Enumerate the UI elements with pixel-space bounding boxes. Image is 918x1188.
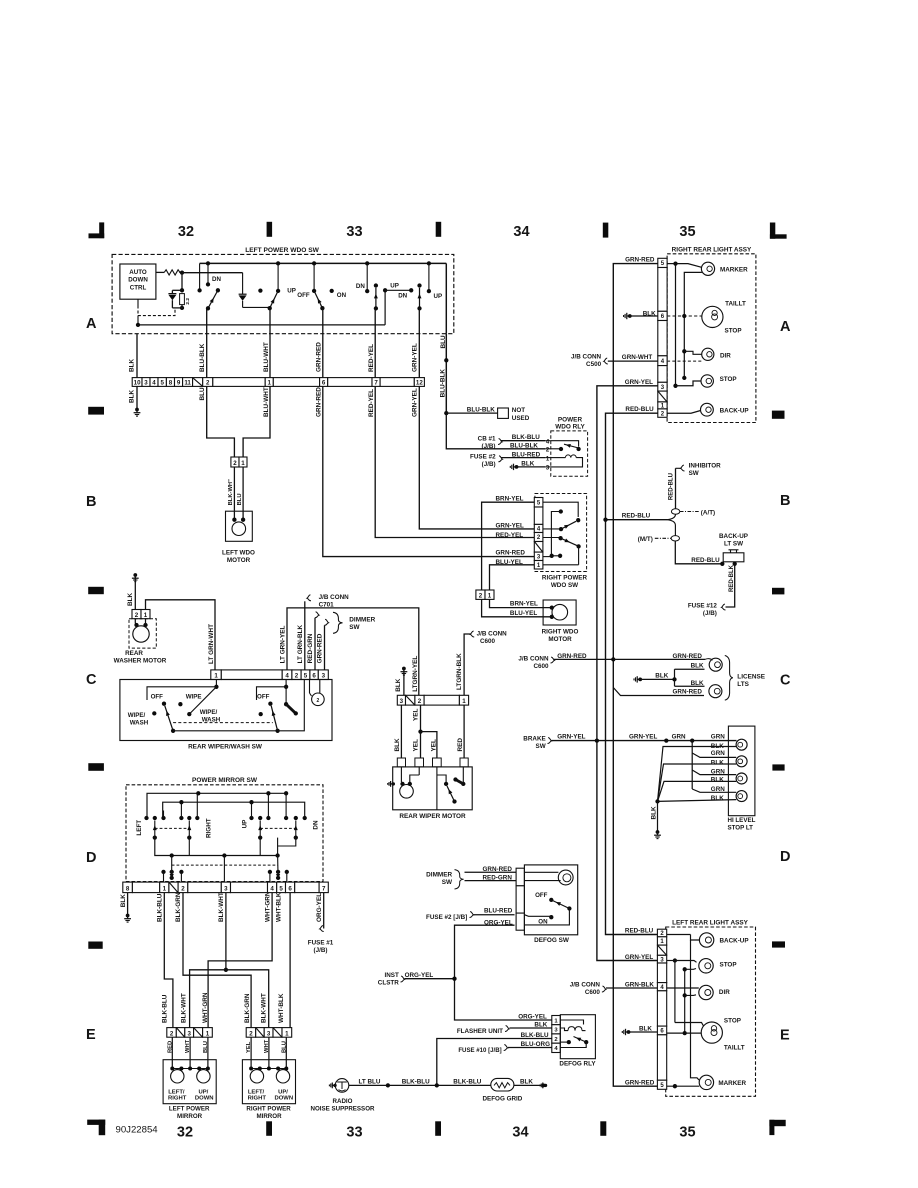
- wire ORG-YEL fuse2 to defog sw and down to defog rly: [455, 925, 552, 1020]
- svg-text:1: 1: [144, 612, 148, 619]
- svg-text:DIR: DIR: [720, 353, 731, 360]
- svg-text:C500: C500: [586, 361, 602, 368]
- svg-text:32: 32: [177, 1125, 193, 1141]
- ground G9 with BLK to pin6: [627, 1030, 631, 1034]
- svg-text:2: 2: [135, 612, 139, 619]
- license BLK common with ground: [638, 678, 642, 682]
- svg-text:SW: SW: [689, 470, 699, 477]
- svg-text:MARKER: MARKER: [718, 1080, 746, 1087]
- wire LT BLU / BLK-BLU to defog grid: [349, 1084, 491, 1086]
- svg-text:GRN-RED: GRN-RED: [316, 633, 323, 663]
- svg-text:2: 2: [233, 460, 237, 467]
- wire BLK flasher to defog rly: [510, 1027, 552, 1029]
- hi level BLK to ground: [657, 801, 659, 831]
- wire auto-down ctrl to resistor: [156, 271, 164, 273]
- svg-text:3: 3: [187, 1030, 191, 1037]
- svg-text:USED: USED: [512, 415, 530, 422]
- svg-text:DN: DN: [313, 820, 320, 830]
- svg-text:GRN-RED: GRN-RED: [496, 550, 526, 557]
- wire BLU-YEL to right wdo motor: [482, 599, 552, 616]
- switch BACK-UP LT SW symbol: [723, 553, 744, 562]
- connector strip power mirror sw: [123, 882, 133, 893]
- hi level bulbs x4: [736, 739, 747, 750]
- svg-text:35: 35: [679, 224, 695, 240]
- defog grid element: [491, 1078, 514, 1091]
- svg-text:UP/: UP/: [198, 1089, 208, 1095]
- svg-text:GRN-YEL: GRN-YEL: [629, 734, 657, 741]
- svg-text:DEFOG RLY: DEFOG RLY: [559, 1061, 596, 1068]
- wire BLK from defog grid to ground: [514, 1084, 541, 1086]
- connector half (A/T): [671, 509, 679, 514]
- svg-text:RED: RED: [457, 738, 464, 752]
- wire GRN-RED dimmer to wiper sw pin3: [324, 625, 326, 670]
- wire BLK-GRN pin2 to right mirror pin2: [183, 893, 251, 1028]
- svg-text:GRN: GRN: [672, 734, 686, 741]
- diode D1 with 2.2 resistor branch: [172, 289, 182, 291]
- connector C2 2-1 to right wdo motor: [476, 590, 485, 599]
- wire GRN-WHT to pin4: [608, 360, 658, 362]
- svg-text:4: 4: [285, 673, 289, 680]
- svg-text:RED-GRN: RED-GRN: [307, 633, 314, 663]
- svg-text:BLU-BLK: BLU-BLK: [199, 343, 206, 372]
- svg-text:BLK-WHT: BLK-WHT: [261, 993, 268, 1023]
- svg-text:WASHER MOTOR: WASHER MOTOR: [114, 658, 167, 665]
- node diode bottom: [180, 306, 184, 310]
- wire M/T to back-up lt sw: [675, 541, 722, 564]
- svg-text:BLK-WHT: BLK-WHT: [181, 993, 188, 1023]
- node BLU / BLU-BLK transition: [444, 358, 448, 362]
- svg-text:J/B CONN: J/B CONN: [570, 982, 601, 989]
- svg-text:BLK-BLU: BLK-BLU: [521, 1032, 549, 1039]
- rear wiper motor ground lead: [392, 782, 395, 785]
- svg-text:WHT: WHT: [264, 1039, 270, 1053]
- wire GRN-RED pin6: [322, 334, 324, 378]
- label J/B CONN C701: [307, 595, 311, 601]
- svg-text:BLK: BLK: [129, 358, 136, 372]
- svg-text:BLK-BLU: BLK-BLU: [512, 434, 540, 441]
- wire BLU-YEL pin1 to 2-1 connector: [490, 565, 535, 590]
- wire RED-BLU up to inhibitor sw: [675, 468, 677, 509]
- svg-text:RED-BLU: RED-BLU: [669, 473, 675, 500]
- svg-text:8: 8: [169, 380, 173, 387]
- mirror sw dashed couplers: [155, 827, 190, 829]
- svg-text:6: 6: [322, 380, 326, 387]
- wire BLK-BLU pin1 to left mirror pin2: [164, 893, 173, 1028]
- svg-text:BLK: BLK: [711, 777, 724, 784]
- svg-text:BLK: BLK: [691, 680, 704, 687]
- wire BLK-BLU to relay pin4: [501, 440, 546, 442]
- svg-text:3: 3: [267, 1030, 271, 1037]
- wire ORG-YEL inst clstr to junction: [405, 978, 455, 980]
- box REAR WIPER MOTOR: [393, 767, 473, 810]
- motor circle rear wiper: [400, 782, 404, 786]
- wire WHT-GRN pin4 to left mirror pin1: [208, 893, 272, 1028]
- svg-text:RED-YEL: RED-YEL: [368, 344, 375, 372]
- svg-text:UP: UP: [390, 283, 399, 290]
- svg-text:GRN-RED: GRN-RED: [673, 689, 703, 696]
- wire taillt dashed link to bulb: [667, 315, 702, 317]
- svg-text:UP: UP: [241, 820, 248, 829]
- svg-text:LEFT/: LEFT/: [168, 1089, 185, 1095]
- svg-text:BLU-BLK: BLU-BLK: [467, 407, 495, 414]
- wire BLK below pin10 to ground: [136, 386, 138, 408]
- box RIGHT POWER MIRROR: [242, 1060, 295, 1104]
- bulb STOP left rear upper: [673, 958, 677, 962]
- svg-text:2: 2: [295, 673, 299, 680]
- svg-text:BLU-RED: BLU-RED: [484, 907, 513, 914]
- wire BLU-RED to relay pin1: [501, 457, 545, 459]
- page frame: right margin ticks: [772, 411, 785, 419]
- rear wiper sw internals: pin1 node: [215, 680, 217, 687]
- svg-text:BLK-BLU: BLK-BLU: [453, 1079, 481, 1086]
- wire GRN-RED from C600 to bus: [554, 658, 614, 660]
- svg-text:3: 3: [400, 698, 404, 705]
- svg-text:OFF: OFF: [297, 292, 310, 299]
- page frame: ruler corner mark top-right: [770, 223, 775, 239]
- svg-text:FUSE #2: FUSE #2: [470, 453, 496, 460]
- svg-text:WHT-GRN: WHT-GRN: [202, 992, 209, 1023]
- svg-text:NOT: NOT: [512, 407, 525, 414]
- svg-text:ORG-YEL: ORG-YEL: [518, 1013, 547, 1020]
- bulb DIR right rear: [682, 349, 686, 353]
- svg-text:WDO SW: WDO SW: [551, 582, 578, 589]
- connector NOT USED: [498, 408, 509, 418]
- wire RED-BLU bus from pin2 down page: [606, 413, 658, 934]
- page frame: top ruler ticks: [267, 222, 273, 237]
- box HI LEVEL STOP LT: [728, 726, 755, 816]
- internal vertical from stop node: [674, 961, 676, 1023]
- svg-text:E: E: [780, 1028, 790, 1044]
- connector strip defog rly: [552, 1016, 561, 1025]
- svg-text:RED-YEL: RED-YEL: [496, 532, 524, 539]
- wire BLU-BLK pin2: [206, 334, 208, 378]
- svg-text:2: 2: [249, 1030, 253, 1037]
- svg-text:GRN-YEL: GRN-YEL: [557, 734, 585, 741]
- svg-text:MOTOR: MOTOR: [548, 636, 572, 643]
- svg-text:WHT-BLK: WHT-BLK: [278, 993, 285, 1023]
- svg-text:34: 34: [513, 224, 529, 240]
- svg-text:TAILLT: TAILLT: [725, 301, 746, 308]
- svg-text:INST: INST: [384, 972, 398, 979]
- svg-text:J/B CONN: J/B CONN: [571, 353, 602, 360]
- svg-text:D: D: [86, 850, 96, 866]
- mirror sw pivots: [153, 835, 157, 839]
- rail 2 from resistor to diode branch: [182, 272, 243, 274]
- svg-text:REAR WIPER MOTOR: REAR WIPER MOTOR: [399, 813, 466, 820]
- motor REAR WASHER MOTOR: [129, 619, 156, 648]
- svg-text:WDO RLY: WDO RLY: [555, 424, 585, 431]
- wire GRN-YEL brake sw to hi level stop lt: [552, 740, 737, 742]
- mirror sw rail 2: [163, 802, 305, 818]
- svg-text:REAR: REAR: [125, 650, 143, 657]
- svg-text:BLK: BLK: [127, 592, 134, 606]
- top supply rail inside switch: [200, 262, 447, 264]
- svg-text:GRN: GRN: [711, 734, 725, 741]
- wire RED-BLU down to M/T connector: [667, 520, 675, 536]
- svg-text:BLU: BLU: [237, 493, 243, 505]
- svg-text:LT BLU: LT BLU: [359, 1079, 381, 1086]
- wire GRN-YEL bus from pin3 down page: [597, 386, 658, 961]
- svg-text:OFF: OFF: [257, 694, 270, 701]
- svg-text:CLSTR: CLSTR: [378, 980, 399, 987]
- node diode top: [180, 288, 184, 292]
- mirror sw bottom contacts: [161, 870, 165, 874]
- svg-text:10: 10: [134, 380, 141, 387]
- svg-text:BLK: BLK: [395, 678, 402, 692]
- connector strip rear wiper motor 3/2/1: [397, 695, 405, 705]
- svg-text:STOP: STOP: [720, 376, 737, 383]
- svg-text:LEFT POWER WDO SW: LEFT POWER WDO SW: [245, 247, 319, 254]
- defog sw illumination bulb: [524, 871, 558, 873]
- svg-text:BLK: BLK: [711, 795, 724, 802]
- bulb BACK-UP left rear: [667, 934, 691, 936]
- page frame: ruler corner mark top-left: [99, 222, 104, 238]
- wire GRN-RED below pin6 to right power wdo sw pin3: [323, 386, 535, 556]
- mirror sw collector rail: [155, 838, 278, 856]
- node brake wire joins GRN-YEL bus: [595, 738, 599, 742]
- svg-text:LT GRN-BLK: LT GRN-BLK: [297, 624, 304, 663]
- contacts right wiper switch: [285, 680, 287, 687]
- box REAR WIPER/WASH SW: [120, 680, 332, 741]
- svg-text:RED-BLK: RED-BLK: [729, 564, 735, 592]
- svg-text:J/B CONN: J/B CONN: [518, 655, 549, 662]
- wire resistor node down: [181, 273, 183, 291]
- svg-text:LTS: LTS: [737, 681, 749, 688]
- wire BLK to rear washer connector: [134, 577, 136, 610]
- radio noise suppressor symbol: [333, 1084, 336, 1087]
- svg-text:34: 34: [512, 1125, 528, 1141]
- svg-text:RIGHT: RIGHT: [168, 1096, 187, 1102]
- node grn-yel pin3: [673, 384, 677, 388]
- svg-text:LT SW: LT SW: [724, 541, 743, 548]
- svg-text:2: 2: [479, 593, 483, 600]
- wire auto down ctrl ground leg: [137, 316, 139, 325]
- wire BLU feed from top rail: [445, 263, 447, 333]
- node resistor output: [180, 270, 184, 274]
- bulb BACK-UP right rear: [667, 411, 701, 414]
- relay contact: [551, 441, 579, 447]
- svg-text:BLK-GRN: BLK-GRN: [175, 892, 182, 922]
- wire RED-BLU to A/T connector: [606, 519, 668, 521]
- svg-text:NOISE SUPPRESSOR: NOISE SUPPRESSOR: [311, 1105, 375, 1112]
- internal vertical A right assy: [675, 264, 677, 386]
- svg-text:RIGHT POWER: RIGHT POWER: [246, 1106, 291, 1113]
- svg-text:2: 2: [206, 380, 210, 387]
- svg-text:DIMMER: DIMMER: [426, 871, 452, 878]
- svg-text:BLK-GRN: BLK-GRN: [244, 993, 251, 1023]
- bulb MARKER left rear: [667, 1085, 700, 1087]
- svg-text:5: 5: [279, 886, 283, 893]
- svg-text:(M/T): (M/T): [638, 536, 653, 543]
- svg-text:J/B CONN: J/B CONN: [477, 631, 508, 638]
- wire GRN-RED bus from pin5 down page: [613, 264, 658, 1087]
- svg-text:C: C: [780, 673, 791, 689]
- svg-text:SW: SW: [349, 624, 360, 631]
- svg-text:WASH: WASH: [130, 719, 149, 726]
- wire BLK pin10: [136, 334, 138, 378]
- bottom common rail inside switch: [138, 324, 385, 326]
- svg-text:REAR WIPER/WASH SW: REAR WIPER/WASH SW: [188, 743, 263, 750]
- svg-text:FUSE #10 [J/B]: FUSE #10 [J/B]: [458, 1047, 501, 1054]
- svg-text:BLU-WHT: BLU-WHT: [263, 387, 270, 417]
- page frame: left margin ticks: [88, 407, 104, 415]
- svg-text:LTGRN-YEL: LTGRN-YEL: [412, 656, 419, 692]
- svg-text:OFF: OFF: [151, 694, 164, 701]
- mirror sw dashed lower coupler: [172, 864, 278, 866]
- svg-text:2: 2: [170, 1030, 174, 1037]
- wire BLK pin8 to ground: [127, 893, 129, 915]
- svg-text:MOTOR: MOTOR: [227, 557, 251, 564]
- svg-text:GRN-YEL: GRN-YEL: [625, 954, 653, 961]
- wire BLK pin6 to dual bulb: [667, 1032, 702, 1034]
- wires left mirror connector to motor: [171, 1037, 173, 1068]
- svg-text:RED-GRN: RED-GRN: [483, 874, 513, 881]
- svg-text:BLK-BLU: BLK-BLU: [162, 994, 169, 1023]
- svg-text:C: C: [86, 672, 97, 688]
- wire BRN-YEL pin5 to 2-1 connector: [482, 502, 535, 590]
- svg-text:LT GRN-YEL: LT GRN-YEL: [279, 625, 286, 663]
- svg-text:BLK-BLU: BLK-BLU: [402, 1079, 430, 1086]
- wire GRN-YEL pin12: [418, 334, 420, 378]
- svg-text:RIGHT WDO: RIGHT WDO: [542, 628, 579, 635]
- svg-text:LEFT POWER: LEFT POWER: [169, 1106, 210, 1113]
- svg-text:GRN-RED: GRN-RED: [557, 653, 587, 660]
- brace license lts: [725, 656, 733, 701]
- svg-text:(J/B): (J/B): [482, 461, 496, 468]
- svg-text:LTGRN-BLK: LTGRN-BLK: [456, 653, 463, 690]
- wire ORG-YEL pin7 to fuse #1: [323, 893, 325, 929]
- svg-text:B: B: [86, 494, 96, 510]
- ground G3 with BLK wire to relay pin3: [515, 465, 519, 469]
- svg-text:1: 1: [488, 593, 492, 600]
- svg-text:35: 35: [679, 1125, 695, 1141]
- svg-text:DEFOG SW: DEFOG SW: [534, 937, 570, 944]
- connector strip right power wdo sw: [534, 498, 543, 508]
- relay coil: [551, 457, 566, 459]
- svg-text:POWER: POWER: [558, 417, 583, 424]
- svg-text:90J22854: 90J22854: [116, 1124, 159, 1135]
- svg-text:ORG-YEL: ORG-YEL: [316, 893, 323, 922]
- node license branch on GRN-RED bus: [611, 657, 615, 661]
- svg-text:RED-BLU: RED-BLU: [691, 557, 720, 564]
- svg-text:DOWN: DOWN: [274, 1096, 293, 1102]
- box POWER MIRROR SW: [126, 785, 323, 882]
- svg-text:RIGHT: RIGHT: [248, 1096, 267, 1102]
- switch S2 UP/OFF/ON (GRN-RED output): [258, 288, 262, 292]
- svg-text:C600: C600: [533, 663, 549, 670]
- svg-text:GRN-BLK: GRN-BLK: [625, 981, 654, 988]
- svg-text:FUSE #2 [J/B]: FUSE #2 [J/B]: [426, 914, 467, 921]
- svg-text:SW: SW: [536, 743, 546, 750]
- svg-text:RADIO: RADIO: [333, 1098, 353, 1105]
- box DEFOG SW: [524, 865, 577, 935]
- svg-text:DN: DN: [356, 283, 365, 290]
- svg-text:ON: ON: [337, 292, 347, 299]
- node BLU-BLK branch to NOT USED: [444, 411, 448, 415]
- svg-text:BLK-WHT: BLK-WHT: [218, 892, 225, 922]
- connector strip left rear light assy: [657, 929, 666, 937]
- wire GRN-YEL below pin12 to right power wdo sw pin4: [419, 386, 534, 529]
- svg-text:(A/T): (A/T): [701, 509, 715, 516]
- ground G5 above rear wiper motor connector: [402, 667, 406, 671]
- svg-text:DEFOG GRID: DEFOG GRID: [482, 1096, 522, 1103]
- svg-text:DOWN: DOWN: [128, 277, 148, 284]
- backup-marker internal vertical: [691, 940, 700, 1080]
- mirror sw top rail 1: [147, 793, 286, 818]
- svg-text:33: 33: [346, 1125, 362, 1141]
- defog sw ON contact: [549, 915, 553, 919]
- svg-text:CB #1: CB #1: [478, 435, 496, 442]
- svg-text:MARKER: MARKER: [720, 266, 748, 273]
- svg-text:BLK: BLK: [711, 743, 724, 750]
- svg-text:RED-BLU: RED-BLU: [625, 406, 654, 413]
- ground G8 defog grid: [544, 1084, 547, 1087]
- svg-text:WIPE: WIPE: [186, 694, 202, 701]
- wire GRN-RED dimmer to defog sw: [465, 871, 517, 873]
- resistor R (auto down): [164, 270, 180, 275]
- svg-text:BLK: BLK: [534, 1022, 547, 1029]
- svg-text:BLK-BLU: BLK-BLU: [157, 893, 164, 922]
- svg-text:LEFT: LEFT: [136, 820, 143, 836]
- svg-text:BLK: BLK: [691, 662, 704, 669]
- wire LT GRN-WHT rear washer to wiper sw pin1: [145, 619, 147, 625]
- svg-text:STOP: STOP: [725, 328, 742, 335]
- defog rly coil: [560, 1020, 583, 1025]
- svg-text:RED-BLU: RED-BLU: [625, 928, 654, 935]
- svg-text:BRN-YEL: BRN-YEL: [496, 496, 524, 503]
- svg-text:TAILLT: TAILLT: [724, 1045, 745, 1052]
- svg-text:C600: C600: [480, 638, 496, 645]
- box LEFT POWER MIRROR: [163, 1060, 216, 1104]
- svg-text:RED: RED: [167, 1041, 173, 1053]
- svg-text:1: 1: [206, 1030, 210, 1037]
- svg-text:ORG-YEL: ORG-YEL: [405, 972, 434, 979]
- node grn-red inside assy: [673, 261, 677, 265]
- node defog grid feed: [435, 1083, 439, 1087]
- connector C3 2-1 rear washer: [132, 610, 141, 619]
- svg-text:YEL: YEL: [246, 1041, 252, 1053]
- svg-text:SW: SW: [442, 879, 453, 886]
- svg-text:INHIBITOR: INHIBITOR: [689, 462, 722, 469]
- bulb DIR left rear: [667, 987, 699, 989]
- svg-text:7: 7: [374, 380, 378, 387]
- svg-text:2: 2: [418, 698, 422, 705]
- svg-text:BLK-WH": BLK-WH": [228, 479, 234, 506]
- svg-text:BRN-YEL: BRN-YEL: [510, 601, 538, 608]
- svg-text:DN: DN: [398, 292, 407, 299]
- svg-text:A: A: [780, 319, 791, 335]
- wire LT GRN-BLK from C600 to pin1: [464, 634, 470, 695]
- svg-text:6: 6: [312, 673, 316, 680]
- svg-text:BLK: BLK: [129, 389, 136, 403]
- svg-text:STOP LT: STOP LT: [728, 825, 754, 832]
- connector strip right power mirror: [246, 1028, 256, 1038]
- hi level GRN feeder vertical: [691, 741, 693, 789]
- svg-text:9: 9: [177, 380, 181, 387]
- svg-text:11: 11: [184, 380, 191, 387]
- svg-text:2.2: 2.2: [185, 298, 191, 305]
- svg-text:UP: UP: [287, 287, 296, 294]
- svg-text:BLU-WHT: BLU-WHT: [263, 342, 270, 372]
- wire WHT-BLK pin6 to right mirror pin1: [289, 893, 291, 1028]
- svg-text:BACK-UP: BACK-UP: [720, 407, 749, 414]
- svg-text:BLK: BLK: [120, 894, 127, 908]
- svg-text:GRN-RED: GRN-RED: [625, 256, 655, 263]
- rear wiper motor terminal pads: [397, 758, 405, 767]
- svg-text:YEL: YEL: [413, 708, 420, 721]
- svg-text:3: 3: [144, 380, 148, 387]
- wire BLK to rear wiper connector pin3: [403, 671, 405, 696]
